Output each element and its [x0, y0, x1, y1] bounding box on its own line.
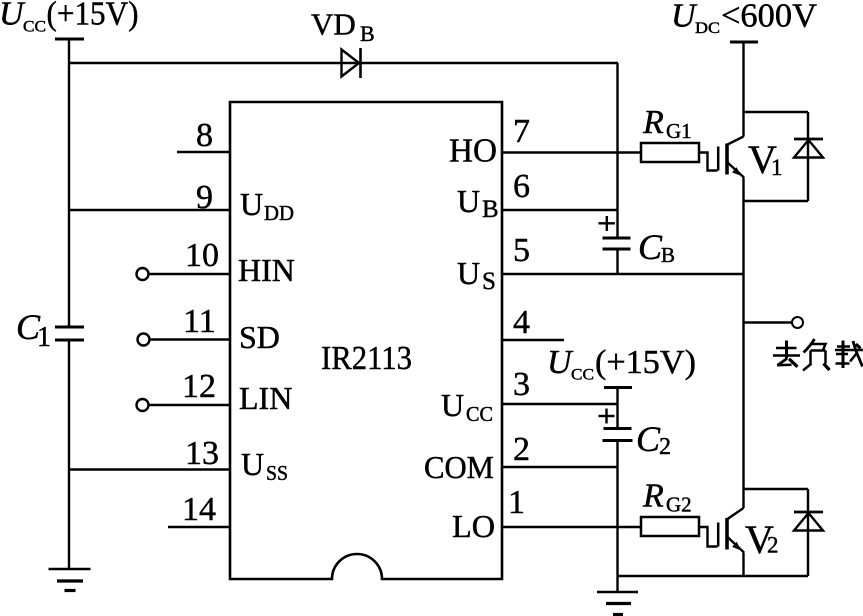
- pin 7 HO: [502, 151, 641, 153]
- pin 6 UB: [502, 209, 618, 211]
- svg-text:COM: COM: [424, 449, 494, 485]
- svg-text:DC: DC: [695, 20, 720, 37]
- wire left rail upper: [68, 39, 70, 327]
- svg-text:SD: SD: [239, 319, 280, 355]
- svg-text:2: 2: [513, 431, 530, 468]
- svg-text:6: 6: [513, 168, 530, 205]
- label C1: [16, 307, 51, 353]
- svg-text:8: 8: [196, 117, 213, 154]
- wire left rail lower: [68, 340, 70, 569]
- svg-text:2: 2: [767, 533, 779, 558]
- svg-text:DD: DD: [264, 201, 294, 225]
- wire V1 collector vertical: [742, 42, 744, 137]
- label V2: [745, 517, 779, 562]
- pin 2 COM: [502, 466, 618, 468]
- svg-text:CC: CC: [23, 19, 46, 36]
- ground middle: [597, 592, 638, 615]
- pin 9: [69, 209, 230, 211]
- wire bottom rail: [618, 575, 809, 577]
- op-amp U1 IC IR2113 body: [230, 102, 502, 579]
- svg-text:R: R: [642, 104, 664, 141]
- diode D2 freewheel: [744, 489, 824, 576]
- wire V2 emitter vertical: [742, 553, 744, 577]
- transistor V2 IGBT: [699, 508, 744, 553]
- label UDD: [240, 186, 294, 225]
- svg-text:1: 1: [508, 484, 525, 521]
- svg-text:HIN: HIN: [238, 252, 295, 288]
- label UB: [457, 183, 499, 223]
- node UDC label: [671, 0, 817, 37]
- pin 5 US: [502, 273, 744, 275]
- svg-text:G1: G1: [666, 119, 692, 143]
- ground left: [49, 569, 91, 591]
- svg-text:U: U: [671, 0, 698, 35]
- svg-text:11: 11: [183, 303, 216, 340]
- svg-text:<600V: <600V: [721, 0, 817, 35]
- resistor RG1: [641, 143, 699, 162]
- svg-text:1: 1: [37, 322, 51, 353]
- svg-text:U: U: [241, 446, 264, 482]
- svg-text:C: C: [638, 227, 663, 267]
- svg-text:LO: LO: [452, 508, 495, 544]
- svg-text:VD: VD: [311, 7, 356, 42]
- wire VCC mid vertical: [616, 388, 618, 429]
- label RG1: [642, 104, 692, 143]
- pin 4: [502, 339, 564, 341]
- node VCC label top-left: [0, 0, 139, 36]
- svg-text:B: B: [360, 21, 375, 46]
- svg-text:U: U: [457, 255, 480, 291]
- label C2: [636, 419, 671, 460]
- diode VDB: [342, 48, 361, 78]
- diode D1 freewheel: [744, 112, 824, 201]
- wire V1 emitter to V2 collector vertical: [742, 178, 744, 509]
- capacitor C2: [599, 409, 633, 441]
- svg-text:S: S: [482, 268, 496, 295]
- svg-text:U: U: [457, 183, 480, 219]
- svg-text:(+15V): (+15V): [595, 344, 696, 381]
- node VCC label mid: [547, 344, 696, 384]
- svg-text:2: 2: [659, 434, 671, 460]
- svg-text:U: U: [441, 387, 464, 423]
- wire CB to US: [616, 249, 618, 274]
- svg-text:9: 9: [196, 179, 213, 216]
- svg-text:U: U: [240, 186, 263, 222]
- label RG2: [642, 478, 692, 517]
- svg-text:CC: CC: [571, 367, 594, 384]
- wire CB branch vertical upper: [616, 63, 618, 238]
- label VDB: [311, 7, 375, 47]
- svg-text:CC: CC: [466, 402, 493, 426]
- svg-text:B: B: [661, 243, 675, 267]
- pin 11: [138, 334, 231, 346]
- pin 8: [177, 151, 230, 153]
- svg-text:(+15V): (+15V): [47, 0, 139, 33]
- wire top rail: [69, 62, 618, 64]
- svg-text:4: 4: [513, 304, 530, 341]
- svg-text:12: 12: [182, 368, 216, 405]
- terminal bar UDC: [730, 41, 758, 44]
- label USS: [241, 446, 288, 485]
- svg-text:HO: HO: [449, 133, 497, 170]
- svg-text:10: 10: [185, 237, 219, 274]
- svg-text:U: U: [547, 344, 574, 381]
- label 去负载 (hand-drawn hanzi): [773, 339, 863, 371]
- terminal bar VCC top-left: [55, 38, 84, 41]
- svg-text:R: R: [642, 478, 664, 515]
- label CB: [638, 227, 675, 267]
- pin 10: [137, 268, 231, 280]
- label V1: [748, 137, 783, 182]
- pin 12: [137, 399, 231, 411]
- svg-text:G2: G2: [666, 493, 692, 517]
- capacitor C1: [55, 327, 84, 340]
- transistor V1 IGBT: [699, 137, 744, 178]
- label UCC: [441, 387, 493, 426]
- pin 1 LO: [502, 526, 641, 528]
- svg-text:SS: SS: [266, 461, 288, 485]
- svg-text:5: 5: [513, 232, 530, 269]
- svg-text:14: 14: [182, 491, 216, 528]
- svg-text:B: B: [482, 196, 499, 223]
- svg-text:LIN: LIN: [239, 380, 292, 416]
- pin 3 UCC: [502, 403, 618, 405]
- wire C2 down to ground rail: [616, 441, 618, 593]
- svg-text:IR2113: IR2113: [321, 340, 412, 377]
- svg-text:7: 7: [513, 113, 530, 150]
- label US: [457, 255, 496, 295]
- terminal bar VCC mid: [604, 386, 632, 389]
- svg-text:13: 13: [185, 435, 219, 472]
- resistor RG2: [641, 517, 699, 536]
- svg-text:C: C: [636, 419, 661, 459]
- svg-text:1: 1: [771, 155, 783, 180]
- capacitor CB: [599, 216, 631, 249]
- svg-text:3: 3: [513, 366, 530, 403]
- pin 13: [69, 468, 230, 470]
- node output to load: [744, 317, 804, 328]
- pin 14: [168, 526, 230, 528]
